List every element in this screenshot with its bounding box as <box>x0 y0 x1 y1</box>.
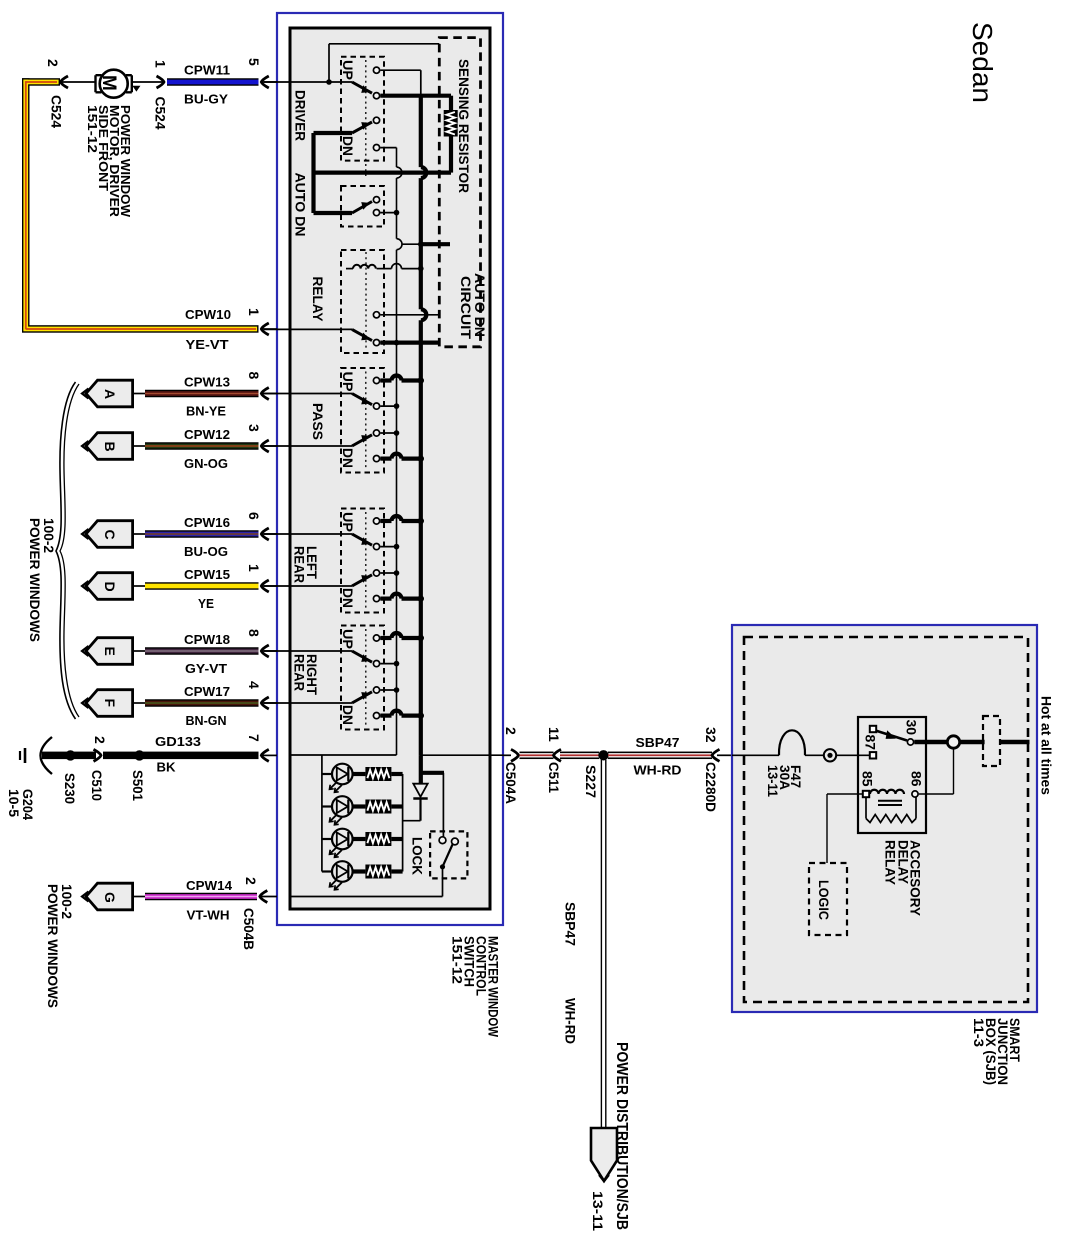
wire RIGHT DN throw to thick bus <box>380 713 391 717</box>
wire - sensing resistor top link <box>329 43 439 45</box>
switch lever LEFT DN <box>352 575 372 586</box>
relay enclosure (master switch) <box>341 250 384 353</box>
contact RIGHT UP throw <box>373 635 379 641</box>
relay coil terminal 85 <box>863 791 869 797</box>
contact - driver UP throw <box>373 67 379 73</box>
power window motor, driver side front - motor symbol <box>100 70 128 98</box>
contact PASS UP throw <box>373 377 379 383</box>
svg-text:WH-RD: WH-RD <box>563 998 579 1044</box>
wire LEFT UP throw to thick bus <box>380 519 391 523</box>
svg-text:C510: C510 <box>89 770 105 801</box>
connector C510 arrow pin 2 <box>94 749 102 761</box>
accessory delay relay box <box>858 717 926 833</box>
svg-text:151-12: 151-12 <box>85 105 100 153</box>
connector C (power windows) <box>86 521 133 548</box>
svg-text:POWER WINDOWS: POWER WINDOWS <box>45 884 61 1008</box>
svg-text:CPW10: CPW10 <box>185 307 231 322</box>
wire LEFT UP feed <box>264 533 352 535</box>
brace - 100-2 POWER WINDOWS (A-F) <box>56 382 76 719</box>
label AUTO DN feed <box>314 211 353 215</box>
relay coil terminal 86 <box>912 791 918 797</box>
wire LEFT DN feed <box>264 585 352 587</box>
wire PASS UP tip to thin bus <box>380 405 396 407</box>
svg-text:2: 2 <box>243 877 259 885</box>
wire PASS DN feed <box>264 445 352 447</box>
contact lock A <box>439 837 446 844</box>
svg-text:BN-GN: BN-GN <box>186 713 227 728</box>
svg-text:30: 30 <box>904 720 920 736</box>
wire SBP47 WH-RD segment 2 <box>560 752 599 754</box>
svg-text:3: 3 <box>246 424 262 432</box>
wire CPW13 BN-YE <box>133 393 145 395</box>
svg-text:BK: BK <box>157 760 177 775</box>
svg-text:C: C <box>102 530 118 540</box>
contact RIGHT DN tip <box>373 687 379 693</box>
relay armature 30-87 <box>876 731 908 741</box>
contact - driver UP lever tip <box>373 93 379 99</box>
svg-text:LOCK: LOCK <box>410 837 426 875</box>
wire RIGHT DN tip to thin bus <box>380 689 396 691</box>
wire auto-dn circuit stub <box>421 242 450 246</box>
connector arrow pin 3 <box>261 440 269 452</box>
wire - motor to C524 pin 1 <box>61 81 96 83</box>
resistor for LED 1 <box>353 772 366 776</box>
connector arrow CPW10 pin 1 <box>261 323 269 335</box>
svg-text:YE-VT: YE-VT <box>186 337 229 352</box>
connector arrow pin 1 <box>261 580 269 592</box>
svg-text:SBP47: SBP47 <box>563 902 579 946</box>
logic box <box>809 863 847 935</box>
contact RIGHT DN throw <box>373 713 379 719</box>
wire - driver UP throw to bus <box>380 69 421 71</box>
svg-text:7: 7 <box>246 734 262 742</box>
wire CPW18 GY-VT <box>133 650 145 652</box>
master window control switch inner body <box>290 28 490 909</box>
svg-text:86: 86 <box>909 771 925 787</box>
svg-text:WH-RD: WH-RD <box>634 763 682 778</box>
wire CPW10 YE-VT loop <box>22 78 60 86</box>
contact auto-dn tip <box>373 197 379 203</box>
smart junction box outer <box>732 625 1037 1012</box>
diode (master switch) <box>419 799 421 821</box>
switch - LEFT enclosure <box>341 509 384 613</box>
svg-text:11-3: 11-3 <box>971 1018 987 1047</box>
switch - AUTO DN enclosure <box>341 186 384 227</box>
contact relay lever tip <box>373 340 379 346</box>
contact LEFT UP tip <box>373 544 379 550</box>
mechanical link RIGHT <box>365 629 367 726</box>
svg-text:2: 2 <box>92 736 108 744</box>
wire - internal thick bus <box>419 96 423 167</box>
relay internal resistor <box>865 797 867 818</box>
contact lock B <box>452 838 459 845</box>
wire RIGHT UP tip to thin bus <box>380 663 396 665</box>
svg-text:POWER WINDOWS: POWER WINDOWS <box>27 518 43 642</box>
svg-text:BN-YE: BN-YE <box>186 404 226 419</box>
contact - driver DN lever tip <box>373 117 379 123</box>
connector symbol on hot feed (dashed) <box>983 716 1000 766</box>
svg-text:M: M <box>98 75 119 91</box>
svg-text:DN: DN <box>340 588 356 608</box>
svg-text:S227: S227 <box>583 765 599 798</box>
wire - LED supply rail <box>321 755 323 872</box>
svg-text:PASS: PASS <box>310 403 326 440</box>
svg-text:10-5: 10-5 <box>6 789 22 817</box>
connector A (power windows) <box>86 380 133 407</box>
svg-text:A: A <box>102 389 118 399</box>
wire PASS UP throw to thick bus <box>380 378 391 382</box>
switch lever RIGHT UP <box>352 651 372 662</box>
switch lever PASS UP <box>352 394 372 405</box>
contact auto-dn throw <box>373 210 379 216</box>
label SENSING RESISTOR box <box>439 38 480 347</box>
svg-text:6: 6 <box>246 512 262 520</box>
switch lever RIGHT DN <box>352 692 372 703</box>
svg-text:1: 1 <box>246 564 262 572</box>
svg-text:CPW14: CPW14 <box>186 878 233 893</box>
relay core lines <box>878 800 902 802</box>
LED indicator 3 <box>322 838 332 840</box>
svg-text:CPW16: CPW16 <box>184 515 230 530</box>
svg-text:8: 8 <box>246 629 262 637</box>
bus tap symbol <box>824 749 836 761</box>
svg-text:G: G <box>102 892 118 903</box>
svg-text:UP: UP <box>340 629 356 649</box>
connector F (power windows) <box>86 690 133 717</box>
wire - lock switch feed stub <box>421 771 444 775</box>
resistor for LED 3 <box>353 837 366 841</box>
wire PASS DN throw to thick bus <box>380 457 391 461</box>
wire CPW14 VT-WH <box>133 896 145 898</box>
mechanical link LEFT <box>365 512 367 609</box>
LED indicator 4 <box>322 870 332 872</box>
svg-text:C511: C511 <box>546 762 562 793</box>
svg-text:BU-OG: BU-OG <box>184 544 228 559</box>
contact PASS DN tip <box>373 430 379 436</box>
wire - LED collector <box>402 774 404 872</box>
connector arrow pin 5 <box>261 76 269 88</box>
connector C511 pin 11 arrow <box>554 749 562 761</box>
wire LEFT DN throw to thick bus <box>380 596 391 600</box>
mechanical link DRIVER <box>365 60 367 176</box>
svg-text:5: 5 <box>246 58 262 66</box>
wire - feed to C504A inside switch <box>420 754 503 756</box>
svg-text:C524: C524 <box>49 95 65 128</box>
wire - CPW11 feed inside switch <box>264 81 352 83</box>
svg-text:REAR: REAR <box>292 546 308 583</box>
wire lock to CPW14 <box>442 867 444 897</box>
wire - ground rail GD133 inside switch <box>290 754 397 756</box>
relay terminal 30 <box>907 739 913 745</box>
svg-text:CPW12: CPW12 <box>184 427 230 442</box>
connector arrow pin 7 <box>261 749 269 761</box>
switch - PASS enclosure <box>341 368 384 473</box>
wire RIGHT DN feed <box>264 702 352 704</box>
connector C524 pin 2 arrow <box>61 76 69 88</box>
contact LEFT DN tip <box>373 570 379 576</box>
svg-text:LOGIC: LOGIC <box>816 880 832 920</box>
svg-text:F: F <box>102 699 118 708</box>
wire auto-dn throw to thin bus <box>380 212 396 214</box>
svg-text:1: 1 <box>153 60 169 68</box>
wire SBP47 WH-RD segment 1 <box>520 752 554 754</box>
svg-text:CPW15: CPW15 <box>184 567 230 582</box>
svg-text:AUTO DN: AUTO DN <box>293 173 309 237</box>
svg-text:GD133: GD133 <box>155 734 201 749</box>
svg-text:87: 87 <box>863 735 879 751</box>
connector D (power windows) <box>86 573 133 600</box>
contact relay throw <box>373 312 379 318</box>
svg-text:DRIVER: DRIVER <box>293 90 309 141</box>
svg-text:CPW18: CPW18 <box>184 632 230 647</box>
svg-text:POWER DISTRIBUTION/SJB: POWER DISTRIBUTION/SJB <box>613 1042 630 1230</box>
svg-text:VT-WH: VT-WH <box>187 908 230 923</box>
svg-text:DN: DN <box>340 136 356 156</box>
wire relay throw to auto-dn circuit <box>380 314 439 316</box>
splice S501 <box>134 750 144 760</box>
svg-text:11: 11 <box>546 727 562 742</box>
resistor for LED 4 <box>353 869 366 873</box>
svg-text:UP: UP <box>340 60 356 80</box>
svg-text:1: 1 <box>246 308 262 316</box>
switch - RIGHT enclosure <box>341 626 384 730</box>
svg-text:UP: UP <box>340 372 356 392</box>
connector C504A pin 2 arrow <box>503 754 511 756</box>
relay terminal 87 <box>870 726 876 732</box>
wire relay tip to sensing box (thick) <box>380 341 439 345</box>
svg-text:CPW13: CPW13 <box>184 375 230 390</box>
svg-text:RELAY: RELAY <box>310 277 326 323</box>
svg-text:REAR: REAR <box>292 654 308 691</box>
mechanical link PASS <box>365 372 367 470</box>
svg-text:CPW17: CPW17 <box>184 684 230 699</box>
svg-text:E: E <box>102 647 118 656</box>
wire LEFT UP tip to thin bus <box>380 546 396 548</box>
fuse F47 30A <box>779 730 805 755</box>
svg-text:C2280D: C2280D <box>703 762 719 812</box>
svg-text:C504A: C504A <box>503 762 519 804</box>
node ring on hot feed <box>947 736 959 748</box>
wire fuse to relay <box>805 754 824 756</box>
wire 86 to hot feed node <box>919 793 954 795</box>
svg-text:RELAY: RELAY <box>883 840 899 886</box>
contact - driver DN throw <box>373 145 379 151</box>
svg-text:S230: S230 <box>62 773 78 804</box>
svg-text:SBP47: SBP47 <box>636 735 680 750</box>
wire - internal thin bus <box>396 148 398 168</box>
svg-text:CPW11: CPW11 <box>184 63 230 78</box>
connector - POWER DISTRIBUTION/SJB arrow <box>591 1128 617 1181</box>
wire RIGHT UP feed <box>264 650 352 652</box>
wire PASS UP feed <box>264 393 352 395</box>
ground G204 <box>41 737 53 774</box>
svg-text:DN: DN <box>340 448 356 468</box>
wire into fuse F47 <box>732 754 779 756</box>
wire RIGHT UP throw to thick bus <box>380 636 391 640</box>
svg-text:C524: C524 <box>153 97 169 130</box>
connector arrow pin 4 <box>261 697 269 709</box>
contact RIGHT UP tip <box>373 661 379 667</box>
wire LEFT DN tip to thin bus <box>380 572 396 574</box>
switch lever PASS DN <box>352 435 372 446</box>
relay feed terminal <box>870 752 876 758</box>
wire auto-dn link to thick bus <box>402 243 421 245</box>
connector arrow pin 8 <box>261 388 269 400</box>
wire - driver DN throw to thin bus <box>380 147 396 149</box>
switch - LOCK enclosure <box>430 831 467 878</box>
connector G (power windows) <box>86 883 133 910</box>
wire CPW12 GN-OG <box>133 445 145 447</box>
relay coil <box>870 790 904 794</box>
switch lever driver UP <box>352 82 372 93</box>
connector arrow pin 2 C504B <box>260 891 268 903</box>
svg-text:151-12: 151-12 <box>450 936 466 984</box>
switch lever LEFT UP <box>352 534 372 545</box>
svg-text:B: B <box>102 442 118 452</box>
svg-text:CIRCUIT: CIRCUIT <box>458 276 474 339</box>
switch lever relay <box>352 329 372 340</box>
splice S227 <box>598 750 608 760</box>
wire pin 30 to hot feed <box>914 740 984 745</box>
svg-text:2: 2 <box>503 727 519 735</box>
svg-text:Sedan: Sedan <box>967 22 998 103</box>
wire SBP47 drop to power distribution <box>600 760 602 1128</box>
wire CPW16 BU-OG <box>133 533 145 535</box>
wire CPW10 feed to relay lever <box>264 328 352 330</box>
relay coil (master switch) <box>353 265 376 269</box>
svg-text:2: 2 <box>45 59 61 67</box>
connector C2280D pin 32 arrow <box>712 749 720 761</box>
wire - driver lever tip to sensing resistor (thick) <box>380 94 451 98</box>
wire - sensing resistor bottom to driver DN feed <box>449 137 453 173</box>
connector B (power windows) <box>86 433 133 460</box>
svg-text:GN-OG: GN-OG <box>184 456 228 471</box>
smart junction box dashed border <box>744 637 1028 1002</box>
svg-text:85: 85 <box>860 771 876 787</box>
connector E (power windows) <box>86 638 133 665</box>
svg-text:YE: YE <box>198 596 214 611</box>
svg-text:4: 4 <box>246 681 262 689</box>
wire GD133 BK <box>42 752 96 760</box>
LED indicator 1 <box>322 773 332 775</box>
contact PASS UP tip <box>373 403 379 409</box>
resistor - sensing resistor symbol <box>444 110 458 137</box>
svg-text:BU-GY: BU-GY <box>184 92 228 107</box>
LED indicator 2 <box>322 805 332 807</box>
connector C524 pin 1 arrow <box>157 76 165 88</box>
mechanical link relay <box>365 252 367 350</box>
svg-text:SENSING RESISTOR: SENSING RESISTOR <box>456 59 472 193</box>
wire CPW11 BU-GY <box>167 78 259 86</box>
connector arrow pin 6 <box>261 528 269 540</box>
svg-text:Hot at all times: Hot at all times <box>1039 696 1055 795</box>
resistor for LED 2 <box>353 804 366 808</box>
wire CPW15 YE <box>133 585 145 587</box>
svg-text:GY-VT: GY-VT <box>185 661 227 676</box>
svg-text:32: 32 <box>703 727 719 743</box>
wire SBP47 WH-RD segment 3 <box>608 752 712 754</box>
master window control switch outer box <box>277 13 503 925</box>
svg-text:UP: UP <box>340 512 356 532</box>
svg-text:13-11: 13-11 <box>765 765 781 797</box>
splice S230 <box>65 750 75 760</box>
svg-text:8: 8 <box>246 372 262 380</box>
switch - DRIVER window switch enclosure <box>341 57 384 161</box>
contact LEFT DN throw <box>373 596 379 602</box>
contact PASS DN throw <box>373 456 379 462</box>
svg-text:13-11: 13-11 <box>590 1191 606 1231</box>
switch lever auto-dn <box>352 202 372 214</box>
contact LEFT UP throw <box>373 518 379 524</box>
svg-text:S501: S501 <box>130 770 146 801</box>
switch lever driver DN <box>352 122 372 133</box>
svg-text:DN: DN <box>340 705 356 725</box>
wire 85 to logic <box>827 793 863 795</box>
svg-text:C504B: C504B <box>241 908 257 950</box>
wire PASS DN tip to thin bus <box>380 432 396 434</box>
switch lever lock <box>443 845 453 867</box>
svg-text:D: D <box>102 582 118 592</box>
connector arrow pin 8 <box>261 645 269 657</box>
wire CPW17 BN-GN <box>133 702 145 704</box>
